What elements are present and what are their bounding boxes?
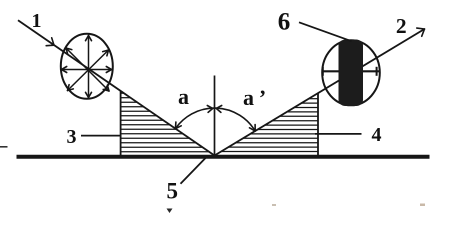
angle arc for a and a-prime [175, 106, 255, 132]
pointer line 6 [299, 22, 352, 41]
reflected light ray to 2 [215, 28, 425, 155]
reflecting surface (mirror) [17, 155, 430, 159]
left hatched wedge (medium region 3) [121, 91, 209, 156]
faint scan specks at bottom [167, 209, 173, 214]
right hatched wedge (medium region 4) [221, 94, 318, 156]
label 5 (point of incidence) with pointer [166, 158, 205, 204]
normal line at point of incidence [214, 76, 216, 159]
unpolarized light symbol: circle with radiating arrows [61, 34, 113, 99]
svg-text:2: 2 [396, 14, 407, 38]
svg-text:4: 4 [372, 124, 382, 146]
label 3 with pointer [67, 126, 121, 148]
polarized light symbol: ellipse with dark vertical bar [322, 40, 380, 107]
svg-text:’: ’ [259, 85, 266, 110]
svg-text:5: 5 [166, 179, 178, 204]
svg-text:3: 3 [67, 126, 77, 148]
svg-text:a: a [243, 85, 254, 110]
svg-text:1: 1 [32, 10, 42, 32]
svg-text:a: a [178, 84, 189, 109]
small mark left edge [0, 146, 8, 148]
incident light ray from source 1 [18, 20, 215, 155]
label 4 with pointer [315, 124, 382, 146]
svg-text:6: 6 [278, 8, 291, 35]
